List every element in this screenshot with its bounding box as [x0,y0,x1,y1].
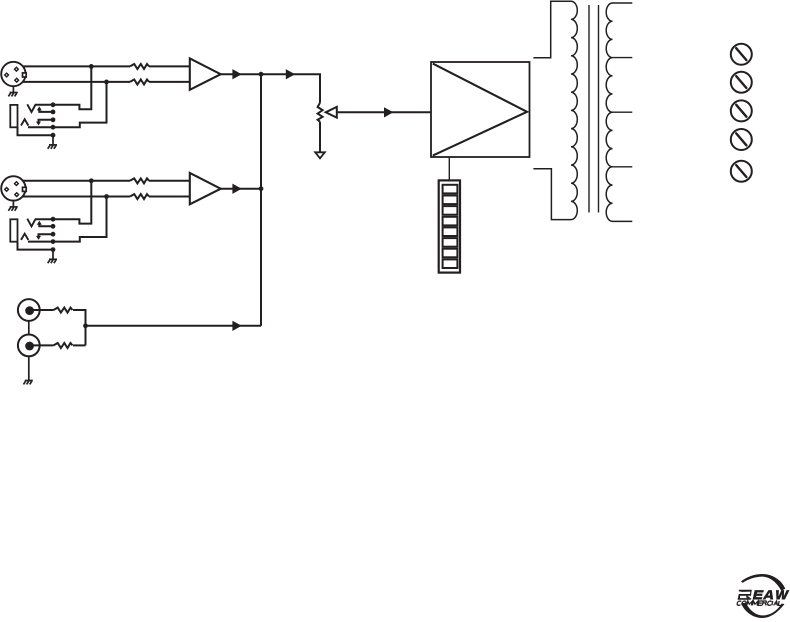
XLR connector J3 [1,176,26,200]
resistor R3 [130,178,149,183]
wire [319,122,321,153]
ring contact [21,119,28,125]
wire [149,65,190,67]
switch wire (ring) [39,234,54,237]
node [51,217,56,222]
node [51,239,56,244]
wire [86,325,262,327]
switch wire (ring) [39,120,54,123]
logo circle bottom arc [741,603,785,618]
LED segment 7 [443,249,458,258]
node [104,80,109,85]
wire [23,81,130,83]
screw terminal 1 [731,44,752,65]
wire ring line [28,197,107,242]
screw terminal 2 [731,72,752,93]
wire [337,111,431,113]
node [89,64,94,69]
wire [73,344,86,346]
screw terminal 4 [731,129,752,150]
LED segment 8 [443,259,458,268]
node [83,323,88,328]
wiper arrow [326,107,337,118]
logo text EAW [753,590,790,599]
arrow (ring switch) [36,236,41,240]
wire [149,81,190,83]
LED segment 5 [443,227,458,236]
screw terminal 3 [731,100,752,121]
switch wire (tip) [39,109,53,112]
transformer T1 secondary [606,3,632,221]
secondary tap 2 [613,57,633,59]
resistor R1 [130,64,149,69]
screw terminal 5 [731,161,752,182]
node [51,125,56,130]
tip contact [27,219,35,227]
wire [23,180,130,182]
wire sleeve [18,242,54,250]
node [104,194,109,199]
resistor R5 [54,308,73,313]
LED segment 6 [443,238,458,247]
EAW Commercial logo [737,574,790,618]
node [51,232,56,237]
ring contact [21,234,28,240]
XLR connector J1 [1,62,26,86]
potentiometer VR1 [318,103,323,122]
arrow [232,69,241,79]
logo text COMMERCIAL [737,601,783,605]
wire [23,65,130,67]
node [51,110,56,115]
TRS jack J4 body [10,219,17,241]
wire [149,180,190,182]
node [51,102,56,107]
transformer T1 primary [533,1,577,219]
arrow [286,69,295,79]
ground (XLR J1) [8,86,17,96]
node [51,224,56,229]
ground (J2 sleeve) [48,135,57,149]
LED segment 3 [443,206,458,215]
wire [149,196,190,198]
LED segment 1 [443,185,458,194]
wire tip line [35,66,91,109]
arrow (tip switch) [37,221,42,225]
node [51,117,56,122]
wire [221,188,261,190]
wire [73,310,86,345]
arrow [384,107,393,117]
op-amp U1 [190,58,221,89]
arrow (ring switch) [36,122,41,126]
tip contact [27,104,35,112]
op-amp U2 [190,173,221,204]
resistor R6 [54,343,73,348]
wire [221,73,261,75]
LED meter [439,180,460,272]
wire ring line [28,82,107,127]
resistor R4 [130,194,149,199]
logo circle top arc [741,574,785,591]
node [51,247,56,252]
secondary tap 4 [613,166,633,168]
transformer core [588,5,590,213]
arrow [232,321,241,331]
LED segment 2 [443,196,458,205]
wire sleeve [18,127,54,135]
wire [28,321,30,335]
ground (XLR J3) [8,201,17,211]
secondary tap 3 [613,111,633,113]
wire bus [260,74,262,326]
wire tip line [35,181,91,224]
switch wire (tip) [39,224,53,227]
node [259,186,264,191]
RCA jack J5 [18,299,40,321]
arrow (tip switch) [37,106,42,110]
wire [261,74,320,103]
wire [31,344,54,346]
LED segment 4 [443,217,458,226]
logo icon "2" [739,590,752,592]
power amp U3 [431,62,530,157]
arrow [232,184,241,194]
ground (RCA) [24,356,33,384]
amp triangle [433,64,527,156]
node [51,133,56,138]
ground (J4 sleeve) [48,250,57,264]
arrow (down, open) [315,152,325,158]
wire (amp to LED meter) [448,157,450,180]
resistor R2 [130,80,149,85]
wire [23,196,130,198]
RCA jack J6 [18,335,40,357]
node [259,72,264,77]
TRS jack J2 body [10,105,17,127]
wire [31,309,54,311]
node [89,178,94,183]
